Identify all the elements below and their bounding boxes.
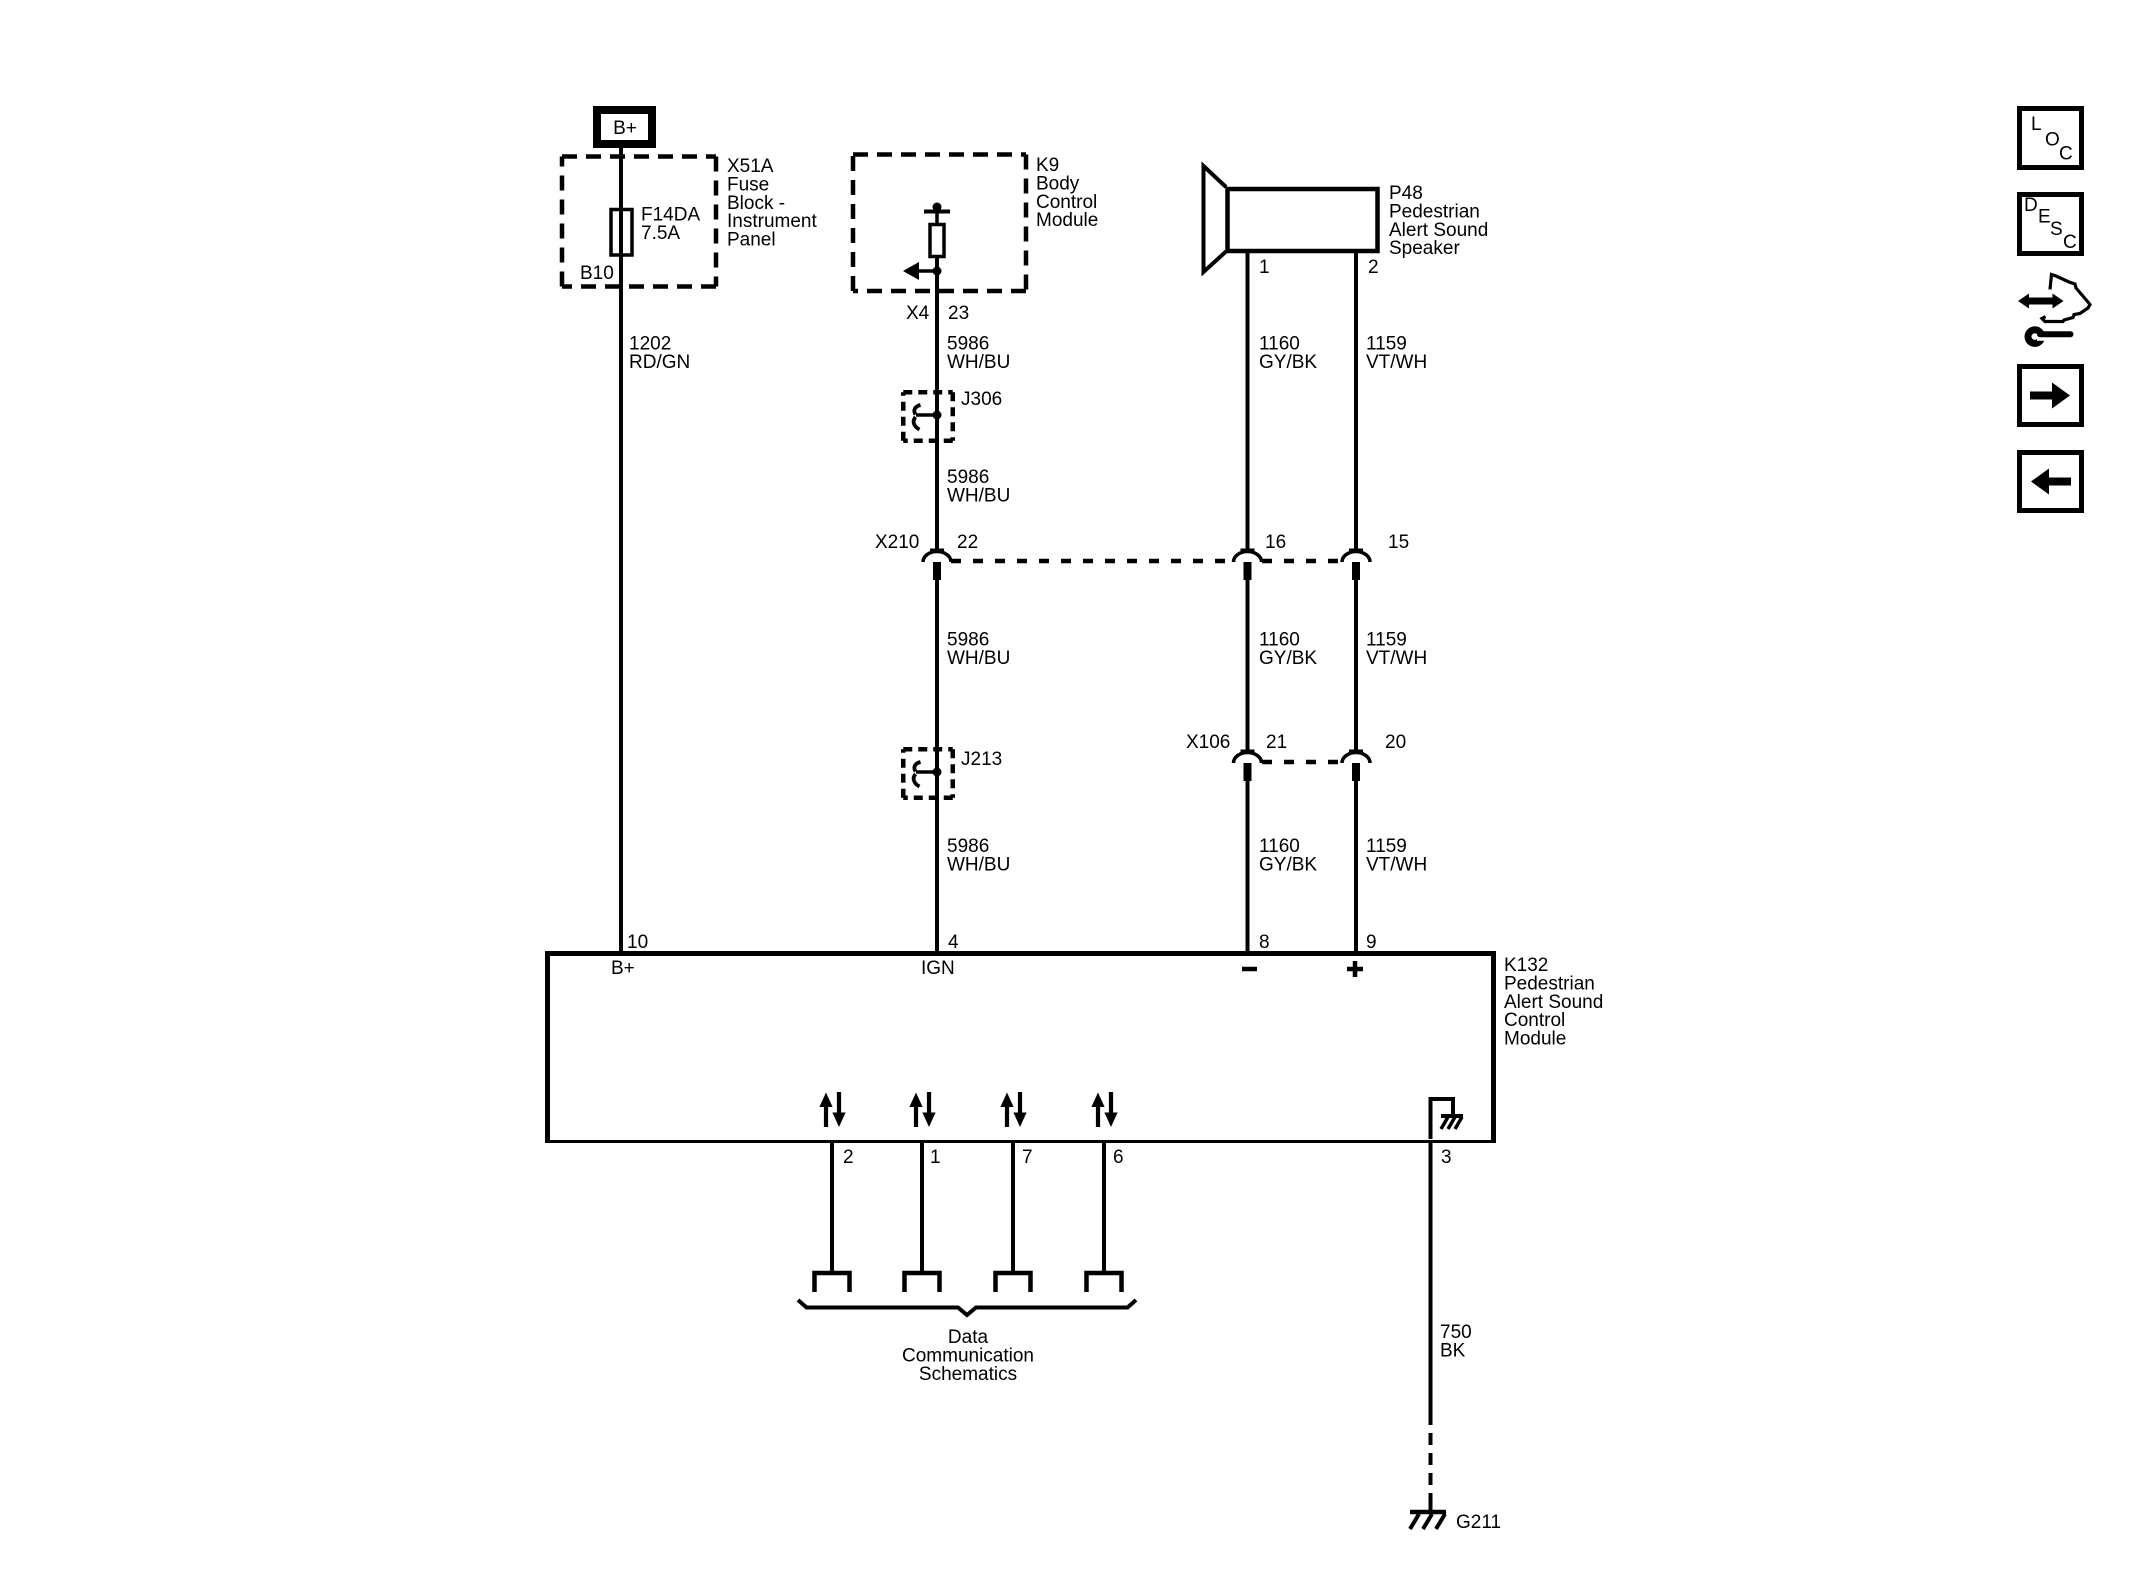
- wire 1160 GY/BK middle segment: [1246, 580, 1250, 752]
- brace for data communication: [798, 1300, 1136, 1315]
- wire 1159 VT/WH middle segment: [1354, 580, 1358, 752]
- speaker P48 symbol: [1204, 166, 1378, 272]
- connector X210 labels: [875, 532, 1409, 553]
- fuse block X51A dashed box: [562, 157, 716, 287]
- label Data Communication Schematics: [902, 1327, 1034, 1385]
- svg-text:VT/WH: VT/WH: [1366, 854, 1427, 875]
- X210 pin 16 connector: [1234, 550, 1262, 580]
- svg-text:C: C: [2063, 232, 2077, 253]
- K132 plus terminal: [1347, 961, 1363, 977]
- svg-text:D: D: [2024, 195, 2038, 216]
- svg-text:L: L: [2031, 114, 2042, 135]
- svg-text:X106: X106: [1186, 732, 1230, 753]
- svg-text:3: 3: [1441, 1147, 1452, 1168]
- svg-text:RD/GN: RD/GN: [629, 352, 690, 373]
- svg-text:7: 7: [1022, 1147, 1033, 1168]
- wire 5986 WH/BU middle segment: [935, 580, 939, 951]
- connector X106 labels: [1186, 732, 1406, 753]
- speaker pin labels 1 and 2: [1259, 257, 1379, 278]
- icon wrench: [2028, 330, 2071, 344]
- splice J306: [903, 389, 1002, 441]
- svg-text:23: 23: [948, 303, 969, 324]
- icon back arrow button: [2020, 453, 2082, 511]
- svg-text:GY/BK: GY/BK: [1259, 854, 1317, 875]
- svg-text:21: 21: [1266, 732, 1287, 753]
- svg-text:C: C: [2059, 144, 2073, 165]
- svg-text:WH/BU: WH/BU: [947, 854, 1010, 875]
- module K132 box: [545, 951, 1496, 1143]
- X210 dashed tie line: [951, 559, 1343, 564]
- svg-text:Module: Module: [1036, 210, 1098, 231]
- X106 pin 21 connector: [1234, 751, 1262, 781]
- wire labels row 1: [629, 334, 1427, 373]
- svg-text:E: E: [2038, 207, 2051, 228]
- K132 bottom pin labels 2 1 7 6 3: [843, 1147, 1452, 1168]
- icon outline shape: [2042, 275, 2090, 322]
- svg-text:20: 20: [1385, 732, 1406, 753]
- icon double arrow: [2018, 294, 2064, 309]
- svg-text:Module: Module: [1504, 1029, 1566, 1050]
- data wire pin 6: [1087, 1141, 1122, 1292]
- wire 1160 GY/BK from speaker: [1246, 252, 1250, 551]
- splice J213: [903, 749, 1002, 798]
- svg-text:2: 2: [843, 1147, 854, 1168]
- svg-text:8: 8: [1259, 932, 1270, 953]
- ground G211: [1410, 1512, 1501, 1533]
- wire 1159 VT/WH from speaker: [1354, 252, 1358, 551]
- fuse F14DA 7.5A: [611, 205, 700, 256]
- K9 junction dot and left arrow: [903, 262, 942, 280]
- label X51A Fuse Block - Instrument Panel: [727, 156, 817, 251]
- K132 data arrows pin 6: [1091, 1092, 1117, 1127]
- svg-text:4: 4: [948, 932, 959, 953]
- svg-text:2: 2: [1368, 257, 1379, 278]
- svg-text:BK: BK: [1440, 1340, 1466, 1361]
- X210 pin 22 connector: [923, 550, 951, 580]
- X210 pin 15 connector: [1342, 550, 1370, 580]
- svg-text:B10: B10: [580, 263, 614, 284]
- svg-text:1: 1: [1259, 257, 1270, 278]
- wire 1160 GY/BK lower segment: [1246, 781, 1250, 951]
- icon next arrow button: [2020, 367, 2082, 425]
- X106 pin 20 connector: [1342, 751, 1370, 781]
- svg-text:VT/WH: VT/WH: [1366, 648, 1427, 669]
- pin B10 label: [580, 263, 614, 284]
- svg-text:GY/BK: GY/BK: [1259, 352, 1317, 373]
- wire label 5986 WH/BU row 2: [947, 467, 1010, 506]
- svg-text:O: O: [2045, 130, 2060, 151]
- K132 data arrows pin 1: [909, 1092, 935, 1127]
- svg-text:15: 15: [1388, 532, 1409, 553]
- K132 top pin labels 10 4 8 9: [627, 932, 1377, 953]
- power symbol B+: [597, 110, 652, 144]
- K132 data arrows pin 7: [1000, 1092, 1026, 1127]
- svg-text:Panel: Panel: [727, 230, 776, 251]
- svg-text:6: 6: [1113, 1147, 1124, 1168]
- svg-text:9: 9: [1366, 932, 1377, 953]
- wire labels row 3: [947, 630, 1427, 669]
- wire 750 BK: [1431, 1143, 1472, 1512]
- svg-text:WH/BU: WH/BU: [947, 648, 1010, 669]
- svg-text:22: 22: [957, 532, 978, 553]
- svg-text:J306: J306: [961, 389, 1002, 410]
- data wire pin 1: [905, 1141, 940, 1292]
- K132 minus terminal: [1242, 967, 1257, 972]
- svg-text:S: S: [2050, 219, 2063, 240]
- X106 dashed tie line: [1262, 760, 1343, 765]
- svg-text:X4: X4: [906, 303, 930, 324]
- svg-text:Schematics: Schematics: [919, 1364, 1017, 1385]
- K132 internal ground symbol: [1431, 1099, 1464, 1139]
- svg-text:WH/BU: WH/BU: [947, 352, 1010, 373]
- svg-text:G211: G211: [1456, 1512, 1501, 1533]
- svg-text:Speaker: Speaker: [1389, 238, 1460, 259]
- svg-text:WH/BU: WH/BU: [947, 485, 1010, 506]
- label K132 Pedestrian Alert Sound Control Module: [1504, 955, 1603, 1050]
- data wire pin 7: [996, 1141, 1031, 1292]
- wire 5986 WH/BU segment from K9: [935, 256, 939, 551]
- body control module K9 dashed box: [853, 155, 1026, 292]
- K132 internal pin names: [611, 958, 955, 979]
- connector X4 pin 23 labels: [906, 303, 969, 324]
- data wire pin 2: [815, 1141, 850, 1292]
- svg-text:7.5A: 7.5A: [641, 223, 680, 244]
- K9 internal fuse element: [924, 203, 950, 257]
- svg-text:J213: J213: [961, 749, 1002, 770]
- svg-text:VT/WH: VT/WH: [1366, 352, 1427, 373]
- svg-text:X210: X210: [875, 532, 919, 553]
- svg-text:1: 1: [930, 1147, 941, 1168]
- svg-text:B+: B+: [611, 958, 635, 979]
- svg-text:B+: B+: [613, 118, 637, 139]
- wire 1159 VT/WH lower segment: [1354, 781, 1358, 951]
- label K9 Body Control Module: [1036, 155, 1098, 231]
- svg-text:IGN: IGN: [921, 958, 955, 979]
- icon DESC button: [2020, 195, 2082, 254]
- icon LOC button: [2020, 109, 2082, 168]
- wire 1202 RD/GN (B+ feed): [619, 148, 623, 951]
- wire labels row 4: [947, 836, 1427, 875]
- svg-text:GY/BK: GY/BK: [1259, 648, 1317, 669]
- label P48 Pedestrian Alert Sound Speaker: [1389, 183, 1488, 259]
- svg-text:16: 16: [1265, 532, 1286, 553]
- svg-text:10: 10: [627, 932, 648, 953]
- K132 data arrows pin 2: [819, 1092, 845, 1127]
